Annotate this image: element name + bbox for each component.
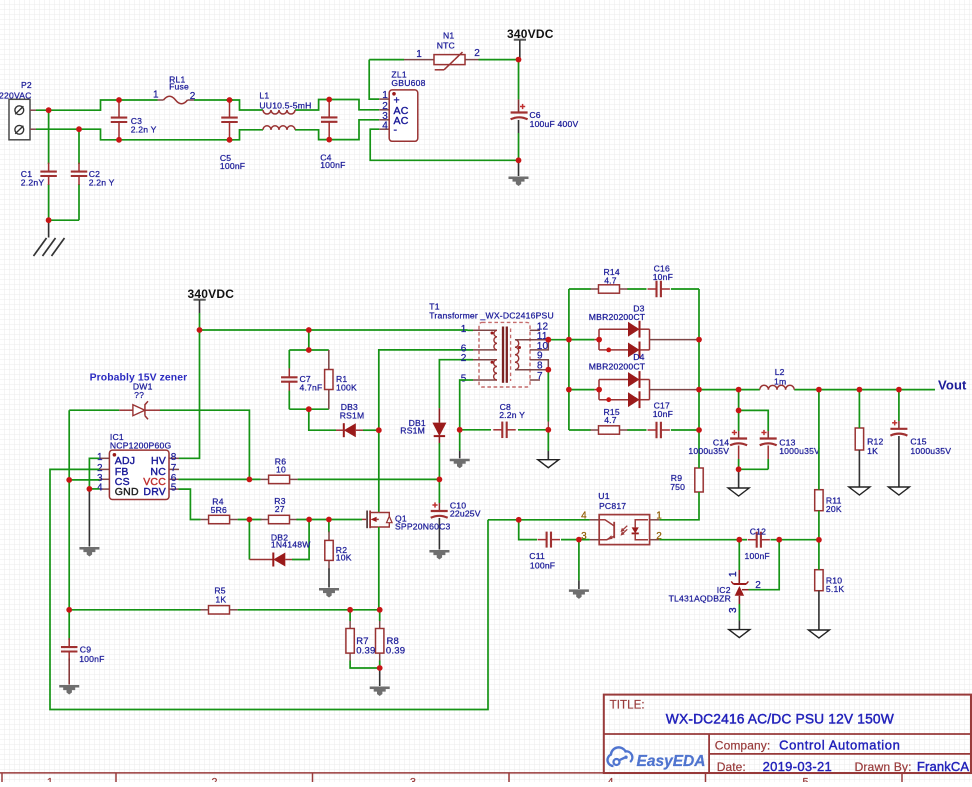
svg-text:1: 1: [416, 49, 422, 60]
svg-text:750: 750: [670, 482, 685, 492]
svg-text:C15: C15: [910, 436, 926, 446]
svg-text:NCP1200P60G: NCP1200P60G: [110, 441, 172, 451]
svg-text:5R6: 5R6: [211, 505, 227, 515]
svg-text:5: 5: [171, 483, 177, 494]
svg-text:Date:: Date:: [717, 760, 746, 774]
svg-text:R12: R12: [867, 437, 883, 447]
svg-text:WX-DC2416 AC/DC PSU 12V 150W: WX-DC2416 AC/DC PSU 12V 150W: [666, 711, 894, 726]
svg-text:1: 1: [461, 324, 467, 335]
svg-text:1000u35V: 1000u35V: [688, 446, 729, 456]
svg-text:1K: 1K: [215, 594, 226, 604]
svg-text:3: 3: [410, 777, 416, 783]
svg-text:100K: 100K: [336, 383, 357, 393]
svg-text:RS1M: RS1M: [400, 426, 425, 436]
svg-text:2019-03-21: 2019-03-21: [763, 759, 833, 774]
svg-text:UU10.5-5mH: UU10.5-5mH: [259, 101, 311, 111]
svg-text:Company:: Company:: [715, 738, 771, 752]
svg-text:100nF: 100nF: [745, 551, 770, 561]
svg-text:MBR20200CT: MBR20200CT: [589, 312, 646, 322]
svg-text:1N4148W: 1N4148W: [271, 540, 311, 550]
svg-text:1: 1: [728, 571, 739, 577]
svg-text:100nF: 100nF: [530, 560, 555, 570]
svg-text:2: 2: [211, 777, 217, 783]
svg-text:3: 3: [728, 607, 739, 613]
svg-text:1000u35V: 1000u35V: [779, 446, 820, 456]
svg-text:2: 2: [190, 91, 196, 102]
svg-text:8: 8: [171, 452, 177, 463]
svg-text:7: 7: [537, 371, 543, 382]
svg-text:1: 1: [153, 90, 159, 101]
svg-text:10nF: 10nF: [653, 272, 673, 282]
svg-text:1m: 1m: [774, 377, 786, 387]
svg-text:20K: 20K: [826, 504, 842, 514]
svg-text:22u25V: 22u25V: [450, 509, 481, 519]
svg-text:100nF: 100nF: [220, 161, 245, 171]
svg-text:2.2n Y: 2.2n Y: [131, 125, 157, 135]
svg-text:100uF 400V: 100uF 400V: [530, 119, 579, 129]
svg-text:-: -: [394, 124, 398, 136]
svg-text:TITLE:: TITLE:: [610, 699, 645, 711]
svg-text:4: 4: [607, 777, 613, 783]
svg-text:TL431AQDBZR: TL431AQDBZR: [669, 594, 731, 604]
svg-text:1K: 1K: [867, 446, 878, 456]
svg-text:Transformer _WX-DC2416PSU: Transformer _WX-DC2416PSU: [429, 311, 554, 321]
svg-text:Drawn By:: Drawn By:: [855, 760, 912, 774]
svg-text:NTC: NTC: [437, 41, 455, 51]
svg-text:1: 1: [97, 452, 103, 463]
svg-text:0.39: 0.39: [386, 646, 405, 657]
svg-text:4.7: 4.7: [604, 276, 617, 286]
svg-text:2.2n Y: 2.2n Y: [89, 178, 115, 188]
svg-text:DRV: DRV: [143, 486, 166, 498]
svg-text:Control Automation: Control Automation: [779, 738, 900, 753]
svg-text:1: 1: [382, 90, 388, 101]
svg-text:Fuse: Fuse: [169, 82, 189, 92]
svg-text:RS1M: RS1M: [340, 410, 365, 420]
svg-text:5: 5: [461, 374, 467, 385]
svg-text:27: 27: [275, 504, 285, 514]
svg-text:U1: U1: [598, 491, 609, 501]
svg-text:N1: N1: [443, 31, 454, 41]
svg-text:4: 4: [382, 120, 388, 131]
svg-text:2: 2: [461, 353, 467, 364]
svg-text:10: 10: [276, 465, 286, 475]
svg-text:100nF: 100nF: [79, 654, 104, 664]
svg-text:L1: L1: [259, 90, 269, 100]
svg-text:PC817: PC817: [599, 501, 626, 511]
svg-text:4.7nF: 4.7nF: [300, 383, 323, 393]
svg-text:2.2nY: 2.2nY: [21, 178, 45, 188]
svg-text:C12: C12: [750, 526, 766, 536]
svg-text:4.7: 4.7: [604, 415, 617, 425]
svg-text:MBR20200CT: MBR20200CT: [589, 361, 646, 371]
svg-text:Vout: Vout: [938, 378, 967, 393]
svg-text:2: 2: [474, 48, 480, 59]
svg-text:10nF: 10nF: [653, 409, 673, 419]
svg-text:2: 2: [755, 580, 761, 591]
svg-text:5: 5: [802, 777, 808, 783]
svg-text:FrankCA: FrankCA: [917, 759, 970, 774]
svg-text:10K: 10K: [336, 553, 352, 563]
svg-text:100nF: 100nF: [320, 160, 345, 170]
svg-text:220VAC: 220VAC: [0, 91, 32, 101]
svg-text:1000u35V: 1000u35V: [910, 446, 951, 456]
svg-text:SPP20N60C3: SPP20N60C3: [395, 522, 451, 532]
svg-text:GND: GND: [115, 486, 139, 498]
svg-text:1: 1: [47, 777, 53, 783]
svg-text:L2: L2: [775, 367, 785, 377]
svg-text:5.1K: 5.1K: [826, 584, 845, 594]
svg-text:EasyEDA: EasyEDA: [637, 753, 706, 770]
svg-text:1: 1: [656, 511, 662, 522]
svg-text:0.39: 0.39: [356, 646, 375, 657]
svg-text:GBU608: GBU608: [391, 78, 425, 88]
svg-text:2.2n Y: 2.2n Y: [499, 410, 525, 420]
svg-text:P2: P2: [21, 80, 32, 90]
svg-text:??: ??: [134, 390, 144, 400]
